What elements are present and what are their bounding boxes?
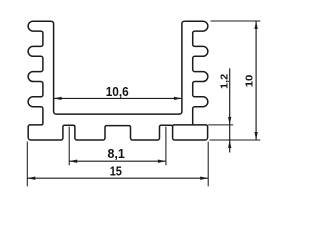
center line right screw slot bbox=[165, 127, 167, 166]
extension line 15 left bbox=[26, 142, 28, 187]
dimension line 8,1 bbox=[69, 160, 166, 162]
profile inner channel outline bbox=[51, 21, 184, 114]
dimension line 1,2 bbox=[229, 68, 231, 152]
dimension line 15 bbox=[27, 177, 208, 179]
arrow 15 right bbox=[200, 177, 208, 180]
dimension line 10 bbox=[255, 21, 257, 140]
arrow 1,2 down bbox=[228, 117, 231, 125]
arrow 10 top bbox=[254, 21, 257, 29]
svg-text:15: 15 bbox=[110, 163, 122, 178]
extension line 15 right bbox=[207, 142, 209, 187]
profile left wall with fins outline bbox=[28, 21, 208, 140]
arrow 8,1 right bbox=[158, 160, 166, 163]
extension line 10 top bbox=[211, 20, 261, 22]
dimension line 10,6 bbox=[54, 97, 182, 99]
arrow 10,6 right bbox=[174, 97, 182, 100]
arrow 10 bottom bbox=[254, 132, 257, 140]
arrow 10,6 left bbox=[54, 97, 62, 100]
arrow 1,2 up bbox=[228, 140, 231, 148]
svg-text:10: 10 bbox=[245, 74, 256, 87]
svg-text:10,6: 10,6 bbox=[106, 84, 129, 99]
center line left screw slot bbox=[68, 127, 70, 166]
svg-text:1,2: 1,2 bbox=[220, 73, 231, 89]
profile right wall with fins outline bbox=[184, 21, 207, 125]
svg-text:8,1: 8,1 bbox=[107, 146, 124, 161]
arrow 15 left bbox=[27, 177, 35, 180]
arrow 8,1 left bbox=[69, 160, 77, 163]
extension line 1,2 upper bbox=[208, 124, 233, 126]
extension line bottom right bbox=[210, 139, 261, 141]
